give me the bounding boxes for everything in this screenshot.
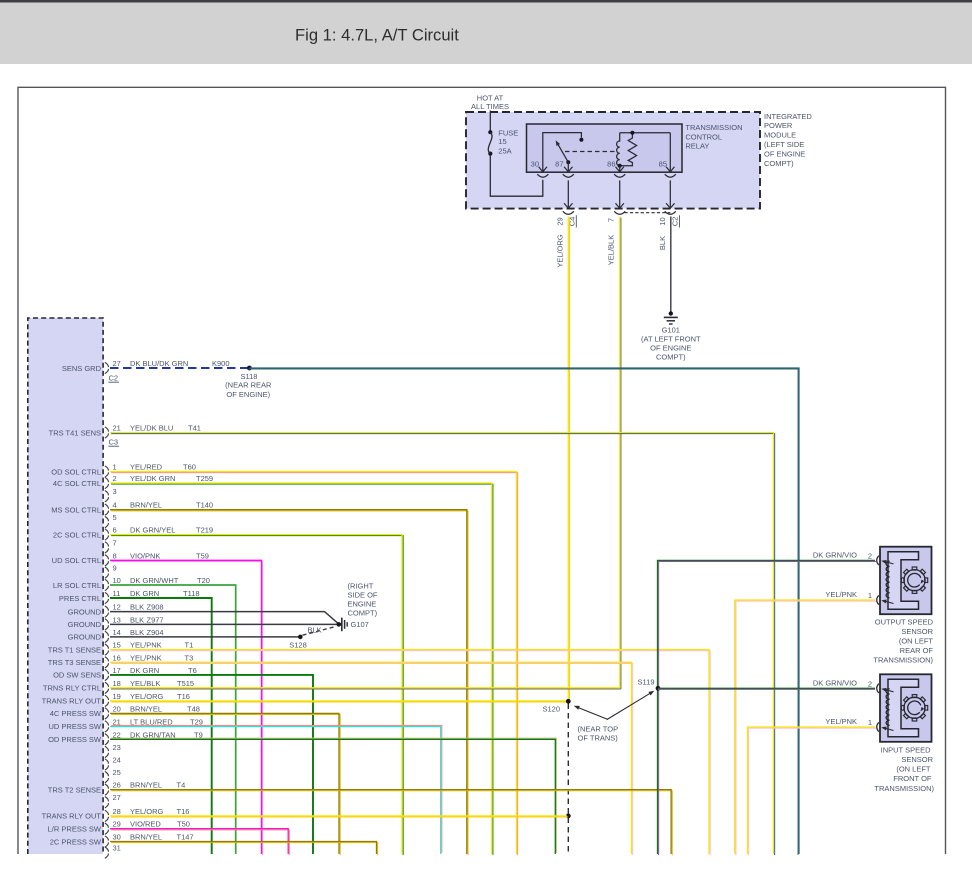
svg-text:TRS T1 SENSE: TRS T1 SENSE (48, 645, 101, 654)
wire YEL/PNK input sensor pin 1 (749, 728, 877, 855)
wire pin11 DK GRN T118 (110, 598, 212, 854)
svg-text:DK GRN/WHT: DK GRN/WHT (130, 576, 179, 585)
svg-text:2: 2 (113, 474, 117, 483)
wire pin22 DK GRN/TAN T9 (111, 738, 556, 853)
svg-text:(AT LEFT FRONT: (AT LEFT FRONT (641, 335, 701, 344)
relay coil winding (617, 133, 620, 166)
svg-text:C2: C2 (109, 374, 119, 383)
svg-text:FRONT OF: FRONT OF (893, 774, 932, 783)
svg-text:18: 18 (113, 679, 121, 688)
svg-text:T16: T16 (177, 692, 190, 701)
wire YEL/ORG from relay 87 to S120 (568, 218, 570, 703)
svg-text:LR SOL CTRL: LR SOL CTRL (53, 581, 101, 590)
svg-text:BRN/YEL: BRN/YEL (130, 501, 162, 510)
relay fixed contact (579, 138, 583, 142)
svg-text:T515: T515 (177, 679, 194, 688)
wire pin20 BRN/YEL T48 (111, 715, 340, 856)
svg-text:G107: G107 (351, 620, 369, 629)
svg-text:YEL/PNK: YEL/PNK (130, 641, 162, 650)
svg-text:1: 1 (868, 718, 872, 727)
wire pin2 YEL/DK GRN T259 (111, 484, 493, 855)
module pin 25 (unused) (105, 768, 121, 783)
svg-text:YEL/BLK: YEL/BLK (606, 235, 615, 265)
svg-text:G101: G101 (662, 326, 680, 335)
svg-text:COMPT): COMPT) (348, 609, 378, 618)
svg-text:2: 2 (868, 679, 872, 688)
svg-text:MODULE: MODULE (764, 131, 796, 140)
svg-text:86: 86 (607, 159, 615, 168)
wire pin21 LT BLU/RED T29 (111, 725, 442, 852)
wire pin29 VIO/RED T50 (111, 830, 289, 855)
dashed BLK jumper S128 to G107 (303, 627, 335, 635)
svg-text:T48: T48 (187, 704, 200, 713)
module pin 9 (unused) (105, 564, 117, 579)
svg-text:GROUND: GROUND (68, 633, 102, 642)
svg-text:T16: T16 (177, 807, 190, 816)
svg-text:21: 21 (113, 424, 121, 433)
ground G107 symbol (337, 622, 342, 627)
module pin 15 TRS T1 SENSE (48, 641, 193, 656)
svg-text:7: 7 (113, 538, 117, 547)
svg-text:BLK: BLK (130, 603, 144, 612)
module pin 5 (unused) (105, 513, 117, 528)
S118 label (225, 372, 272, 399)
svg-text:TRS T3 SENSE: TRS T3 SENSE (48, 658, 101, 667)
svg-text:TRANS RLY OUT: TRANS RLY OUT (42, 697, 102, 706)
wire pin21 YEL/DK BLU T41 (111, 434, 775, 856)
svg-text:DK BLU/DK GRN: DK BLU/DK GRN (130, 359, 188, 368)
svg-text:YEL/DK GRN: YEL/DK GRN (130, 474, 175, 483)
wire pin16 YEL/PNK T3 (111, 663, 633, 855)
connector sockets below IPM (563, 211, 574, 214)
svg-text:OF TRANS): OF TRANS) (578, 734, 619, 743)
module pin 28 TRANS RLY OUT (42, 807, 190, 822)
relay pin 87 stub (567, 162, 569, 172)
svg-text:20: 20 (113, 704, 121, 713)
title bar (0, 3, 972, 64)
svg-text:27: 27 (113, 359, 121, 368)
ground G101 symbol (669, 311, 673, 315)
wire pin14 BLK Z904 to S128 (110, 636, 300, 638)
svg-text:30: 30 (113, 833, 121, 842)
wire pin1 YEL/RED T60 (111, 473, 518, 856)
module pin 30 2C PRESS SW (50, 833, 194, 848)
svg-text:Z908: Z908 (147, 603, 164, 612)
svg-text:(ON LEFT: (ON LEFT (899, 637, 934, 646)
wire from HOT AT ALL TIMES to fuse (489, 111, 491, 131)
svg-text:T6: T6 (188, 666, 197, 675)
svg-text:(LEFT SIDE: (LEFT SIDE (764, 140, 804, 149)
module pin 26 TRS T2 SENSE (48, 781, 185, 796)
ground G101 label (641, 326, 701, 362)
svg-text:ALL TIMES: ALL TIMES (471, 102, 509, 111)
svg-text:C3: C3 (109, 438, 119, 447)
relay actuator dashed link (565, 151, 615, 153)
svg-text:DK GRN: DK GRN (130, 589, 159, 598)
svg-text:COMPT): COMPT) (764, 159, 794, 168)
svg-text:87: 87 (555, 159, 563, 168)
svg-text:INPUT SPEED: INPUT SPEED (881, 745, 931, 754)
transmission control relay box (527, 124, 683, 172)
svg-text:VIO/RED: VIO/RED (130, 820, 161, 829)
svg-text:T147: T147 (177, 833, 194, 842)
svg-text:25A: 25A (498, 146, 511, 155)
wire pin26 BRN/YEL T4 (111, 791, 672, 855)
wire pin19 YEL/ORG T16 to S120 (111, 701, 568, 703)
svg-text:C2: C2 (671, 217, 680, 227)
svg-text:POWER: POWER (764, 121, 793, 130)
svg-text:3: 3 (113, 487, 117, 496)
svg-text:28: 28 (113, 807, 121, 816)
module pin 10 LR SOL CTRL (53, 576, 210, 591)
svg-text:(ON LEFT: (ON LEFT (896, 764, 931, 773)
svg-text:YEL/RED: YEL/RED (130, 463, 163, 472)
svg-text:2C SOL CTRL: 2C SOL CTRL (53, 530, 101, 539)
svg-text:OF ENGINE: OF ENGINE (650, 344, 691, 353)
wire pin6 DK GRN/YEL T219 (111, 536, 403, 856)
svg-text:SENSOR: SENSOR (901, 627, 933, 636)
(RIGHT SIDE OF ENGINE COMPT) label (348, 582, 378, 618)
module pin 31 (unused) (105, 844, 121, 859)
module pin 18 TRNS RLY CTRL (43, 679, 194, 694)
transmission control module panel (dashed) (28, 318, 103, 854)
svg-text:S128: S128 (289, 641, 307, 650)
svg-text:23: 23 (113, 743, 121, 752)
svg-text:CONTROL: CONTROL (685, 132, 722, 141)
svg-text:YEL/ORG: YEL/ORG (130, 807, 164, 816)
svg-text:SENS GRD: SENS GRD (62, 364, 102, 373)
svg-text:UD SOL CTRL: UD SOL CTRL (52, 556, 101, 565)
svg-text:S119: S119 (638, 678, 655, 687)
relay pin labels 30 87 86 85 (531, 159, 667, 168)
svg-text:YEL/ORG: YEL/ORG (130, 692, 164, 701)
svg-text:YEL/DK BLU: YEL/DK BLU (130, 424, 173, 433)
relay armature (switch) (557, 143, 568, 162)
relay pin 85 stub (669, 133, 671, 172)
splice S119 (656, 686, 661, 691)
module pin 12 GROUND (68, 603, 164, 618)
svg-text:VIO/PNK: VIO/PNK (130, 551, 160, 560)
svg-text:TRANS RLY OUT: TRANS RLY OUT (42, 812, 102, 821)
relay pin 86 stub (619, 166, 621, 172)
module pin 22 OD PRESS SW (48, 730, 203, 745)
svg-text:OD SW SENS: OD SW SENS (53, 671, 101, 680)
top dark strip (0, 0, 972, 3)
splice S118 (247, 366, 252, 371)
junction dot on dashed wire for pin 28 (566, 814, 571, 819)
svg-text:INTEGRATED: INTEGRATED (764, 112, 812, 121)
module pin 14 GROUND (68, 628, 164, 643)
connector C2 dashed tie (625, 212, 671, 214)
svg-text:12: 12 (113, 603, 121, 612)
svg-text:OUTPUT SPEED: OUTPUT SPEED (875, 618, 934, 627)
svg-text:PRES CTRL: PRES CTRL (59, 594, 101, 603)
svg-text:85: 85 (659, 159, 667, 168)
svg-text:OF ENGINE: OF ENGINE (764, 149, 805, 158)
dashed wire below S120 (567, 704, 569, 854)
svg-text:T140: T140 (196, 501, 213, 510)
svg-text:DK GRN/VIO: DK GRN/VIO (813, 551, 857, 560)
svg-text:K900: K900 (212, 359, 230, 368)
svg-text:13: 13 (113, 615, 121, 624)
svg-text:YEL/BLK: YEL/BLK (130, 679, 160, 688)
svg-text:TRNS RLY CTRL: TRNS RLY CTRL (43, 684, 101, 693)
svg-text:BLK: BLK (130, 628, 144, 637)
wire color labels YEL/ORG YEL/BLK BLK (rotated) (555, 234, 667, 268)
svg-text:30: 30 (531, 159, 539, 168)
module pin 27 (unused) (105, 793, 121, 808)
splice S120 (566, 699, 571, 704)
svg-text:L/R PRESS SW: L/R PRESS SW (48, 825, 102, 834)
svg-text:T60: T60 (183, 463, 196, 472)
svg-text:10: 10 (658, 217, 667, 225)
HOT AT ALL TIMES label (471, 93, 509, 111)
svg-text:UD PRESS SW: UD PRESS SW (48, 722, 101, 731)
wire DK BLU/DK GRN from S118 right and down (248, 369, 798, 855)
wire pin13 BLK Z977 to G107 (110, 623, 337, 625)
svg-text:YEL/PNK: YEL/PNK (825, 717, 857, 726)
module pin 7 (unused) (105, 538, 117, 553)
svg-text:TRANSMISSION: TRANSMISSION (685, 123, 742, 132)
svg-text:T4: T4 (177, 781, 186, 790)
svg-text:TRS T2 SENSE: TRS T2 SENSE (48, 785, 101, 794)
svg-text:10: 10 (113, 576, 121, 585)
relay coil top rail to pin 85 (620, 132, 671, 134)
svg-text:2C PRESS SW: 2C PRESS SW (50, 837, 102, 846)
svg-text:REAR OF: REAR OF (900, 646, 934, 655)
svg-text:4: 4 (113, 501, 117, 510)
svg-text:ENGINE: ENGINE (348, 600, 377, 609)
svg-text:T259: T259 (196, 474, 213, 483)
svg-text:4C PRESS SW: 4C PRESS SW (50, 709, 102, 718)
svg-text:DK GRN: DK GRN (130, 666, 159, 675)
module pin 6 2C SOL CTRL (53, 526, 213, 541)
svg-text:15: 15 (113, 641, 121, 650)
splice S128 (298, 635, 303, 640)
svg-text:OF ENGINE): OF ENGINE) (226, 390, 270, 399)
svg-text:RELAY: RELAY (685, 142, 709, 151)
svg-text:Fig 1: 4.7L, A/T Circuit: Fig 1: 4.7L, A/T Circuit (295, 26, 459, 45)
svg-text:S120: S120 (543, 704, 561, 713)
module pin 29 L/R PRESS SW (48, 820, 190, 835)
module pin 23 (unused) (105, 743, 121, 758)
svg-text:(RIGHT: (RIGHT (348, 582, 374, 591)
svg-text:7: 7 (606, 218, 615, 222)
module pin 11 PRES CTRL (59, 589, 200, 604)
svg-text:29: 29 (555, 217, 564, 225)
wire pin4 BRN/YEL T140 (111, 511, 468, 855)
wire pin10 DK GRN/WHT T20 (110, 585, 236, 854)
module pin 2 4C SOL CTRL (53, 474, 213, 489)
svg-text:BLK: BLK (130, 615, 144, 624)
module pin 3 (unused) (105, 487, 117, 502)
svg-text:YEL/PNK: YEL/PNK (130, 653, 162, 662)
svg-text:TRANSMISSION): TRANSMISSION) (874, 784, 934, 793)
svg-text:11: 11 (113, 589, 121, 598)
svg-text:T41: T41 (188, 424, 201, 433)
svg-text:31: 31 (113, 844, 121, 853)
wire pin28 YEL/ORG T16 to dashed wire junction (111, 816, 568, 818)
relay pin sockets below box (537, 174, 548, 177)
module pin 16 TRS T3 SENSE (48, 653, 193, 668)
svg-text:T50: T50 (177, 820, 190, 829)
svg-text:16: 16 (113, 653, 121, 662)
wire pin18 YEL/BLK T515 joining relay 86 wire (111, 688, 621, 690)
svg-text:29: 29 (113, 820, 121, 829)
output speed sensor (880, 547, 932, 615)
connector pin labels 29 C4 7 10 C2 (rotated) (555, 215, 679, 227)
module pin 17 OD SW SENS (53, 666, 197, 681)
wire pin30 BRN/YEL T147 (111, 843, 378, 856)
wire pin15 YEL/PNK T1 (111, 651, 710, 855)
wire YEL/BLK from relay 86 to pin 18 row (620, 218, 622, 689)
wire DK GRN/VIO S119 to input sensor pin 2 (658, 688, 875, 690)
wire pin27 SENS GRD dashed DK BLU to S118 (110, 367, 248, 369)
svg-text:TRANSMISSION): TRANSMISSION) (873, 656, 933, 665)
module pin 24 (unused) (105, 756, 121, 771)
svg-text:T20: T20 (197, 576, 210, 585)
relay coil junction dots (630, 131, 634, 135)
module pin 19 TRANS RLY OUT (42, 692, 190, 707)
svg-text:BRN/YEL: BRN/YEL (130, 833, 162, 842)
svg-text:2: 2 (868, 551, 872, 560)
svg-text:T3: T3 (185, 653, 194, 662)
relay pin arrows at box bottom (539, 167, 547, 172)
svg-text:Z977: Z977 (147, 615, 164, 624)
IPM label INTEGRATED POWER MODULE (764, 112, 812, 168)
module pin 21 TRS T41 SENS (49, 424, 201, 439)
wire DK GRN/VIO output sensor pin 2 to S119 and down (659, 562, 877, 856)
svg-text:BLK: BLK (308, 625, 322, 634)
svg-text:(NEAR TOP: (NEAR TOP (578, 724, 619, 733)
module pin 13 GROUND (68, 615, 164, 630)
svg-text:BRN/YEL: BRN/YEL (130, 781, 162, 790)
svg-text:25: 25 (113, 768, 121, 777)
svg-text:OD PRESS SW: OD PRESS SW (48, 735, 102, 744)
svg-text:SIDE OF: SIDE OF (348, 591, 378, 600)
fuse F15 25A (488, 128, 518, 155)
svg-text:GROUND: GROUND (68, 607, 102, 616)
svg-text:24: 24 (113, 756, 121, 765)
svg-text:17: 17 (113, 666, 121, 675)
wire pin12 BLK Z908 to G107 (110, 612, 338, 624)
relay output wires inside IPM (567, 180, 569, 207)
svg-text:SENSOR: SENSOR (901, 755, 933, 764)
module pin 1 OD SOL CTRL (51, 463, 196, 478)
svg-text:BRN/YEL: BRN/YEL (130, 704, 162, 713)
svg-text:6: 6 (113, 526, 117, 535)
svg-text:14: 14 (113, 628, 121, 637)
module pin 21 UD PRESS SW (48, 717, 202, 732)
svg-text:GROUND: GROUND (68, 620, 102, 629)
svg-text:27: 27 (113, 793, 121, 802)
svg-text:TRS T41 SENS: TRS T41 SENS (49, 428, 101, 437)
relay pin 30 internal rail (543, 133, 582, 172)
svg-text:1: 1 (868, 591, 872, 600)
svg-text:MS SOL CTRL: MS SOL CTRL (51, 506, 101, 515)
wire fuse to relay pin 30 (490, 156, 543, 197)
svg-text:YEL/ORG: YEL/ORG (555, 234, 564, 268)
integrated power module box (dashed) (466, 112, 760, 209)
svg-text:Z904: Z904 (147, 628, 164, 637)
wire pin8 VIO/PNK T59 (111, 561, 263, 855)
module pin 20 4C PRESS SW (50, 704, 200, 719)
svg-text:(NEAR REAR: (NEAR REAR (225, 381, 272, 390)
svg-text:DK GRN/YEL: DK GRN/YEL (130, 526, 175, 535)
module pin 4 MS SOL CTRL (51, 501, 213, 516)
relay label TRANSMISSION CONTROL RELAY (685, 123, 742, 150)
svg-text:OD SOL CTRL: OD SOL CTRL (51, 467, 101, 476)
svg-text:COMPT): COMPT) (656, 353, 686, 362)
svg-text:19: 19 (113, 692, 121, 701)
svg-text:5: 5 (113, 513, 117, 522)
(NEAR TOP OF TRANS) label with arrows to S120 and S119 (573, 689, 655, 743)
svg-text:YEL/PNK: YEL/PNK (825, 590, 857, 599)
svg-text:15: 15 (498, 137, 506, 146)
svg-text:8: 8 (113, 551, 117, 560)
svg-text:T1: T1 (185, 641, 194, 650)
svg-text:1: 1 (113, 463, 117, 472)
svg-text:BLK: BLK (658, 236, 667, 250)
input speed sensor label (874, 745, 934, 793)
wire pin17 DK GRN T6 (110, 675, 313, 854)
svg-text:DK GRN/VIO: DK GRN/VIO (813, 678, 857, 687)
wire YEL/PNK output sensor pin 1 (736, 601, 876, 855)
svg-text:9: 9 (113, 564, 117, 573)
svg-text:26: 26 (113, 781, 121, 790)
module pin 8 UD SOL CTRL (52, 551, 209, 566)
input speed sensor (880, 674, 932, 742)
relay resistor (parallel with coil) (620, 133, 637, 166)
svg-text:T59: T59 (196, 551, 209, 560)
module pin 27 SENS GRD (62, 359, 230, 374)
svg-text:T219: T219 (196, 526, 213, 535)
svg-text:4C SOL CTRL: 4C SOL CTRL (53, 479, 101, 488)
wire BLK from relay 85 to G101 (670, 217, 672, 312)
output speed sensor label (873, 618, 933, 665)
svg-text:T118: T118 (183, 589, 200, 598)
